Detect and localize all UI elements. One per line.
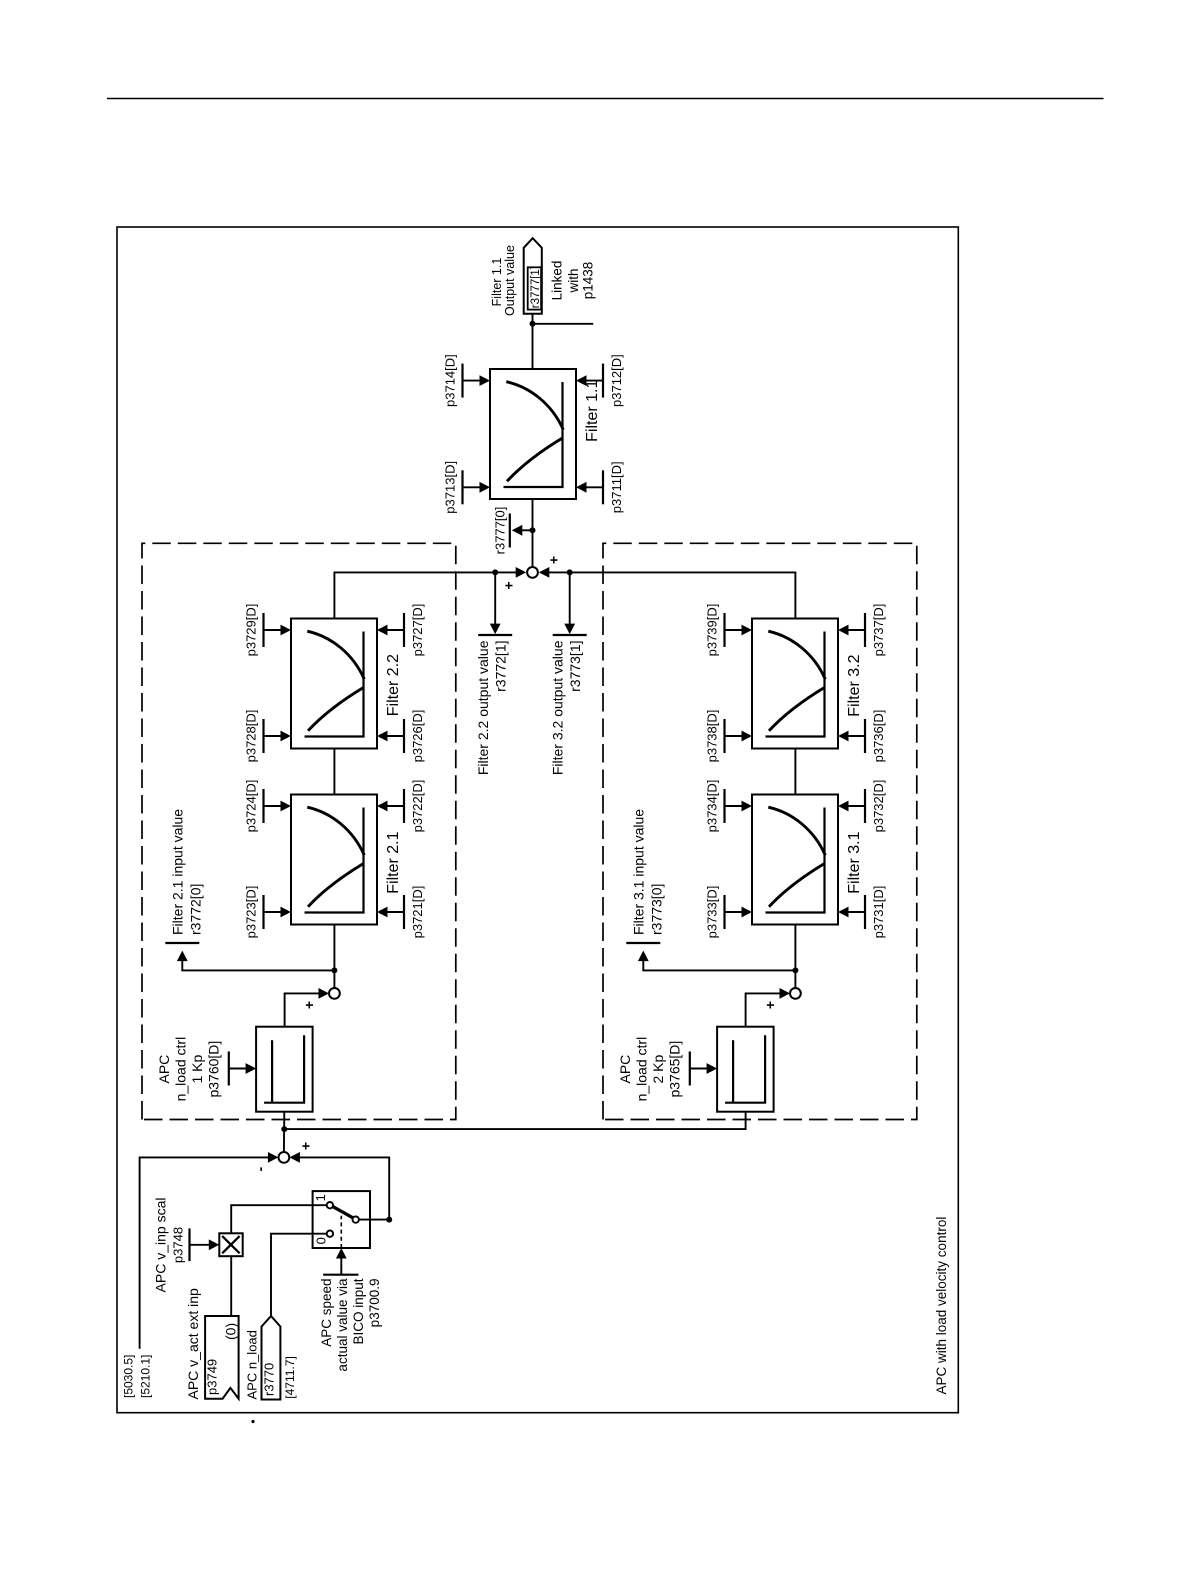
parameter input p3765[D] terminal	[690, 1052, 717, 1086]
control input terminal p3700.9	[323, 1248, 358, 1275]
page dot	[251, 1420, 254, 1423]
svg-text:1: 1	[313, 1194, 328, 1201]
label APC n_load ctrl 2 Kp	[617, 1037, 683, 1102]
selector switch block	[313, 1191, 370, 1248]
arrow into summing junction S1 (minus)	[268, 1152, 279, 1163]
svg-text:r3773[1]: r3773[1]	[567, 641, 583, 692]
svg-text:r3777[1]: r3777[1]	[530, 266, 542, 308]
wire Filter 3.1 to Filter 3.2	[794, 749, 796, 795]
label APC speed actual value via BICO input p3700.9	[319, 1278, 382, 1372]
wire tap r3773[1]	[569, 572, 571, 625]
arrow into S3	[780, 988, 791, 999]
parameter input p3711[D]	[576, 461, 624, 513]
label plus at S4 upper	[500, 581, 516, 589]
label Filter 3.2	[846, 654, 863, 716]
label APC v_inp scal p3748	[153, 1198, 186, 1293]
switch position label 1	[313, 1194, 328, 1201]
svg-text:p3721[D]: p3721[D]	[410, 886, 425, 939]
terminal bar r3773[0]	[626, 942, 660, 944]
input flag p3749	[205, 1316, 239, 1399]
parameter input p3713[D]	[443, 461, 491, 514]
svg-text:Filter 3.2 output value: Filter 3.2 output value	[550, 640, 566, 775]
wire setpoint input	[140, 1157, 270, 1348]
svg-text:p1438: p1438	[581, 262, 596, 300]
svg-text:BICO input: BICO input	[351, 1278, 366, 1344]
label plus at S4 lower	[546, 556, 562, 564]
label r3777[0]	[492, 507, 507, 555]
summing junction S1	[279, 1152, 290, 1163]
svg-text:p3732[D]: p3732[D]	[871, 780, 886, 833]
svg-text:0: 0	[313, 1237, 328, 1244]
junction dot filter 2.1 input tap	[331, 967, 337, 973]
arrow tap r3773[1]	[564, 624, 575, 635]
wire S4 to Filter 1.1	[532, 499, 534, 567]
svg-text:r3770: r3770	[262, 1363, 277, 1396]
wire tap r3772[1]	[494, 572, 496, 625]
junction dot filter 3.1 input tap	[792, 967, 798, 973]
arrow tap r3772[1]	[490, 624, 501, 635]
parameter input p3760[D] terminal	[229, 1052, 256, 1086]
filter block Filter 2.2	[291, 619, 377, 749]
gain block 1 Kp p3760[D]	[256, 1027, 313, 1112]
parameter input p3727[D]	[377, 604, 425, 657]
arrow tap r3772[0]	[177, 951, 188, 962]
parameter input p3739[D]	[705, 604, 753, 657]
switch lever	[333, 1207, 353, 1218]
parameter input p3736[D]	[838, 710, 886, 763]
filter block Filter 1.1	[490, 369, 576, 499]
parameter input p3729[D]	[244, 604, 292, 657]
svg-text:[4711.7]: [4711.7]	[283, 1356, 297, 1398]
wire tap r3777[0]	[521, 529, 533, 531]
arrow tap r3773[0]	[638, 951, 649, 962]
summing junction S2	[329, 988, 340, 999]
parameter input p3724[D]	[244, 780, 292, 833]
svg-text:p3714[D]: p3714[D]	[443, 354, 458, 407]
arrow into S4 from above	[516, 567, 527, 578]
svg-text:p3736[D]: p3736[D]	[871, 710, 886, 763]
wire switch output to S1	[298, 1157, 389, 1219]
output connector pentagon	[524, 238, 542, 314]
svg-text:actual value via: actual value via	[335, 1278, 350, 1372]
parameter input p3738[D]	[705, 710, 753, 763]
svg-text:with: with	[566, 268, 581, 293]
svg-text:Filter 3.1: Filter 3.1	[846, 831, 863, 893]
wire multiplier to switch pos 1	[231, 1205, 327, 1233]
wire S3 to Filter 3.1	[794, 925, 796, 989]
parameter input p3721[D]	[377, 886, 425, 939]
switch contact 0	[327, 1231, 333, 1237]
svg-text:p3711[D]: p3711[D]	[609, 461, 624, 513]
svg-text:p3724[D]: p3724[D]	[244, 780, 259, 833]
label APC n_load	[245, 1330, 260, 1399]
wire S2 to Filter 2.1	[333, 925, 335, 989]
wire tap r3772[0]	[182, 959, 334, 970]
wire Filter 1.1 output	[532, 314, 534, 369]
svg-text:p3737[D]: p3737[D]	[871, 604, 886, 657]
svg-text:+: +	[500, 581, 516, 589]
svg-text:Linked: Linked	[550, 261, 565, 301]
terminal bar r3772[0]	[165, 942, 199, 944]
svg-text:p3722[D]: p3722[D]	[410, 780, 425, 833]
label [4711.7]	[283, 1356, 297, 1398]
parameter input p3732[D]	[838, 780, 886, 833]
junction dot output branch	[530, 321, 536, 327]
svg-text:p3700.9: p3700.9	[367, 1279, 382, 1328]
svg-text:1 Kp: 1 Kp	[189, 1054, 205, 1083]
parameter input p3726[D]	[377, 710, 425, 763]
wire output branch stub	[533, 323, 594, 325]
switch contact 1	[327, 1202, 333, 1208]
junction dot switch output	[386, 1217, 392, 1223]
junction dot r3777[0] tap	[530, 527, 536, 533]
label plus at S1	[298, 1142, 314, 1150]
label Filter 3.1	[846, 831, 863, 893]
parameter input p3714[D]	[443, 354, 491, 407]
gain block 2 Kp p3765[D]	[717, 1027, 774, 1112]
junction dot S1 output	[281, 1126, 287, 1132]
dashed group box: n_load control branch 1	[142, 543, 456, 1119]
wire Filter 2.2 output	[334, 572, 517, 618]
svg-text:[5030.5]: [5030.5]	[122, 1355, 136, 1398]
diagram title	[934, 1217, 949, 1395]
svg-text:[5210.1]: [5210.1]	[139, 1355, 153, 1398]
switch position label 0	[313, 1237, 328, 1244]
parameter input p3723[D]	[244, 886, 292, 939]
parameter input p3733[D]	[705, 886, 753, 939]
parameter input p3748	[190, 1228, 220, 1261]
terminal bar r3772[1]	[478, 634, 512, 636]
dashed group box: n_load control branch 2	[603, 543, 917, 1119]
parameter input p3728[D]	[244, 710, 292, 763]
svg-text:p3738[D]: p3738[D]	[705, 710, 720, 763]
svg-text:Filter 2.1 input value: Filter 2.1 input value	[170, 809, 186, 935]
parameter input p3737[D]	[838, 604, 886, 657]
svg-text:p3726[D]: p3726[D]	[410, 710, 425, 763]
node input refs [5030.5] [5210.1]	[122, 1355, 153, 1398]
parameter input p3712[D]	[576, 354, 624, 407]
svg-text:p3748: p3748	[171, 1227, 186, 1263]
svg-text:Filter 1.1: Filter 1.1	[584, 380, 601, 442]
svg-text:p3723[D]: p3723[D]	[244, 886, 259, 939]
input connector r3770	[262, 1316, 281, 1400]
junction dot r3772[1] tap	[492, 569, 498, 575]
junction dot r3773[1] tap	[567, 569, 573, 575]
label Filter 2.2 output value r3772[1]	[475, 640, 509, 775]
svg-text:+: +	[298, 1142, 314, 1150]
svg-text:APC v_act ext inp: APC v_act ext inp	[185, 1288, 201, 1399]
svg-text:p3734[D]: p3734[D]	[705, 780, 720, 833]
label Filter 1.1 Output value	[490, 245, 517, 316]
wire tap r3773[0]	[643, 959, 795, 970]
svg-text:r3773[0]: r3773[0]	[649, 884, 665, 935]
wire p3749 to multiplier	[230, 1256, 232, 1316]
label Filter 2.1	[385, 831, 402, 893]
summing junction S4	[527, 567, 538, 578]
wire r3770 to switch pos 0	[271, 1234, 327, 1316]
svg-text:p3749: p3749	[205, 1359, 220, 1395]
wire Kp1 output to S2	[285, 993, 320, 1027]
switch control dashed line	[340, 1216, 342, 1248]
svg-text:p3760[D]: p3760[D]	[206, 1041, 222, 1098]
filter block Filter 2.1	[291, 795, 377, 925]
svg-text:p3727[D]: p3727[D]	[410, 604, 425, 657]
svg-text:p3713[D]: p3713[D]	[443, 461, 458, 514]
filter block Filter 3.1	[752, 795, 838, 925]
wire S1 output to Kp1	[283, 1112, 285, 1152]
multiplier block	[219, 1233, 242, 1256]
svg-text:+: +	[762, 1001, 778, 1009]
wire branch to Kp2	[284, 1112, 745, 1129]
svg-text:p3729[D]: p3729[D]	[244, 604, 259, 657]
svg-text:APC n_load: APC n_load	[245, 1330, 260, 1399]
arrow into S1 from below	[289, 1152, 300, 1163]
label Filter 3.2 output value r3773[1]	[550, 640, 584, 775]
svg-text:+: +	[301, 1001, 317, 1009]
parameter input p3731[D]	[838, 886, 886, 939]
svg-text:r3772[0]: r3772[0]	[188, 884, 204, 935]
svg-text:APC speed: APC speed	[319, 1279, 334, 1347]
summing junction S3	[790, 988, 801, 999]
svg-text:APC with load velocity control: APC with load velocity control	[934, 1217, 949, 1395]
label Linked with p1438	[550, 261, 596, 301]
svg-text:APC: APC	[156, 1055, 172, 1084]
svg-text:Filter 1.1: Filter 1.1	[490, 258, 504, 307]
switch pole contact	[353, 1216, 359, 1222]
filter block Filter 3.2	[752, 619, 838, 749]
wire Filter 3.2 output	[548, 572, 796, 618]
svg-text:n_load ctrl: n_load ctrl	[634, 1037, 650, 1102]
svg-text:2 Kp: 2 Kp	[650, 1054, 666, 1083]
label Filter 1.1	[584, 380, 601, 442]
svg-text:n_load ctrl: n_load ctrl	[173, 1037, 189, 1102]
wire Kp2 output to S3	[746, 993, 781, 1027]
svg-text:Filter 3.1 input value: Filter 3.1 input value	[631, 809, 647, 935]
svg-text:Filter 3.2: Filter 3.2	[846, 654, 863, 716]
arrow into S4 from below	[539, 567, 550, 578]
svg-text:r3772[1]: r3772[1]	[493, 641, 509, 692]
parameter input p3722[D]	[377, 780, 425, 833]
svg-text:-: -	[252, 1167, 268, 1172]
label Filter 3.1 input value r3773[0]	[631, 809, 665, 935]
svg-text:APC v_inp scal: APC v_inp scal	[153, 1198, 169, 1293]
svg-text:p3765[D]: p3765[D]	[667, 1041, 683, 1098]
label APC n_load ctrl 1 Kp	[156, 1037, 222, 1102]
svg-text:(0): (0)	[223, 1323, 239, 1340]
svg-text:+: +	[546, 556, 562, 564]
svg-text:p3728[D]: p3728[D]	[244, 710, 259, 763]
svg-text:Filter 2.2 output value: Filter 2.2 output value	[475, 640, 491, 775]
svg-text:r3777[0]: r3777[0]	[492, 507, 507, 555]
arrow tap r3777[0]	[512, 525, 523, 536]
label minus	[252, 1167, 268, 1172]
svg-text:APC: APC	[617, 1055, 633, 1084]
wire Filter 2.1 to Filter 2.2	[333, 749, 335, 795]
svg-text:p3739[D]: p3739[D]	[705, 604, 720, 657]
svg-text:Output value: Output value	[503, 245, 517, 316]
arrow into S2	[319, 988, 330, 999]
svg-text:p3731[D]: p3731[D]	[871, 886, 886, 939]
label APC v_act ext inp	[185, 1288, 201, 1399]
label plus at S2	[301, 1001, 317, 1009]
label plus at S3	[762, 1001, 778, 1009]
label Filter 2.2	[385, 654, 402, 716]
svg-text:p3712[D]: p3712[D]	[609, 354, 624, 407]
label Filter 2.1 input value r3772[0]	[170, 809, 204, 935]
terminal bar r3773[1]	[553, 634, 587, 636]
terminal bar r3777[0]	[509, 514, 511, 548]
svg-text:Filter 2.2: Filter 2.2	[385, 654, 402, 716]
svg-text:Filter 2.1: Filter 2.1	[385, 831, 402, 893]
parameter input p3734[D]	[705, 780, 753, 833]
svg-text:p3733[D]: p3733[D]	[705, 886, 720, 939]
